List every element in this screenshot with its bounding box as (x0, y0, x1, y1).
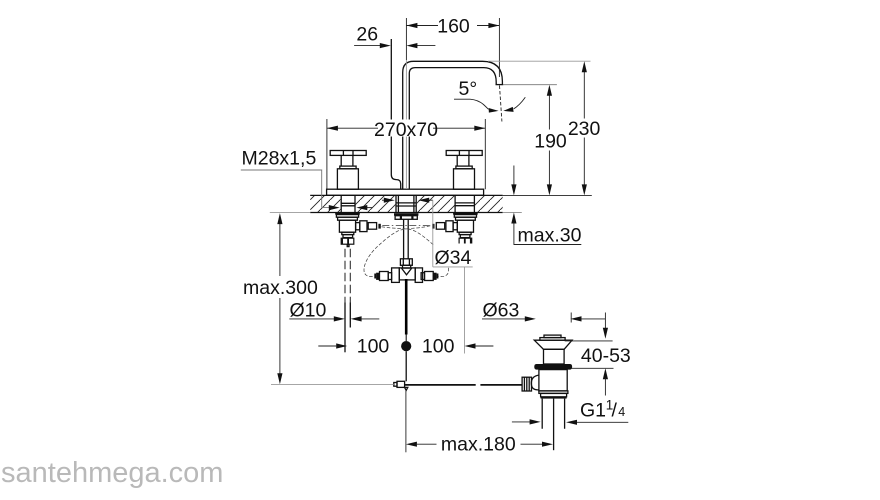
dimension 100 right (422, 335, 493, 357)
dimension 160 (406, 16, 499, 78)
pull rod below tee (thick) (405, 279, 408, 335)
dimension Ø63 (482, 300, 605, 323)
left valve side outlet (356, 221, 381, 232)
countertop bottom extension left (gray) (270, 212, 310, 214)
countertop bottom extension right (503, 212, 522, 214)
dimension 230 (568, 61, 601, 195)
center shank through countertop (396, 195, 416, 212)
tee left branch (374, 272, 391, 281)
svg-text:190: 190 (534, 130, 567, 152)
svg-text:26: 26 (356, 24, 378, 46)
horizontal linkage rod segment 2 (480, 384, 521, 386)
svg-text:santehmega.com: santehmega.com (1, 457, 223, 489)
dimension Ø10 (289, 300, 379, 322)
dimension G1 1/4 (512, 398, 628, 425)
svg-text:160: 160 (437, 16, 470, 38)
dimension 270x70 (327, 119, 485, 189)
dimension max.180 (406, 433, 553, 455)
dimension max.300 (243, 213, 318, 384)
svg-text:100: 100 (357, 335, 390, 357)
svg-text:max.30: max.30 (518, 224, 582, 246)
funnel cone (402, 265, 412, 275)
horizontal linkage rod (405, 384, 476, 386)
dimension 190 (534, 85, 567, 196)
svg-text:/: / (612, 400, 618, 422)
svg-text:Ø63: Ø63 (483, 300, 520, 322)
ball housing bump (531, 375, 539, 390)
svg-text:230: 230 (568, 118, 601, 140)
svg-text:40-53: 40-53 (581, 345, 631, 367)
center shank nut under counter (394, 213, 418, 219)
hose curve right-outlet to tee-left (364, 226, 430, 277)
supply pipe dashed (Ø10) (345, 249, 350, 352)
svg-text:Ø34: Ø34 (435, 247, 472, 269)
extension line below clevis for max.180 (405, 391, 407, 453)
svg-text:100: 100 (422, 335, 455, 357)
svg-text:Ø10: Ø10 (290, 300, 327, 322)
left handle (330, 151, 366, 190)
dimension 5° tilt line (500, 86, 502, 122)
svg-text:4: 4 (618, 405, 625, 419)
knurled nut of drain lever (522, 377, 531, 391)
base plate (327, 189, 484, 195)
countertop top extension line (503, 194, 592, 196)
tee body (392, 268, 423, 283)
svg-text:max.180: max.180 (441, 433, 516, 455)
hose curve left-outlet to tee-right (382, 227, 449, 277)
svg-text:5°: 5° (459, 78, 478, 100)
spout top extension line for 230 (488, 60, 591, 62)
left shank through countertop (341, 195, 356, 212)
spout (403, 61, 504, 189)
countertop hatch (310, 195, 503, 213)
dimension 100 left (318, 335, 389, 357)
extension line through spout axis (405, 60, 407, 189)
arrows at center shank (Ø34) (382, 198, 433, 203)
extension line from clevis to max300 (271, 383, 394, 385)
hex nut on rod (400, 259, 412, 266)
svg-text:270x70: 270x70 (374, 119, 438, 141)
dash-dot centerline between side outlets (382, 225, 430, 227)
clevis joint (394, 381, 408, 390)
outlet extension line for 190 (503, 84, 557, 86)
svg-text:G1: G1 (580, 400, 606, 422)
dimension 40-53 (565, 313, 631, 396)
right shank through countertop (455, 195, 476, 212)
tee right branch (421, 272, 438, 281)
right handle (446, 151, 482, 190)
ball joint dot (401, 341, 411, 351)
dimension max.30 (511, 166, 581, 247)
svg-text:M28x1,5: M28x1,5 (242, 148, 317, 170)
5° label and leader (454, 78, 525, 113)
right valve side outlet (432, 221, 457, 232)
drain pop-up waste (534, 335, 572, 450)
left valve body under counter (335, 213, 360, 247)
rod below dot (405, 351, 407, 381)
right valve body under counter (453, 213, 478, 247)
dimension M28x1,5 (241, 148, 373, 211)
pull rod (J-hook behind spout) (391, 39, 400, 189)
dimension 26 (354, 24, 435, 49)
pop-up rod tube (404, 219, 409, 258)
leader and label Ø34 (433, 200, 477, 353)
svg-text:max.300: max.300 (243, 277, 318, 299)
